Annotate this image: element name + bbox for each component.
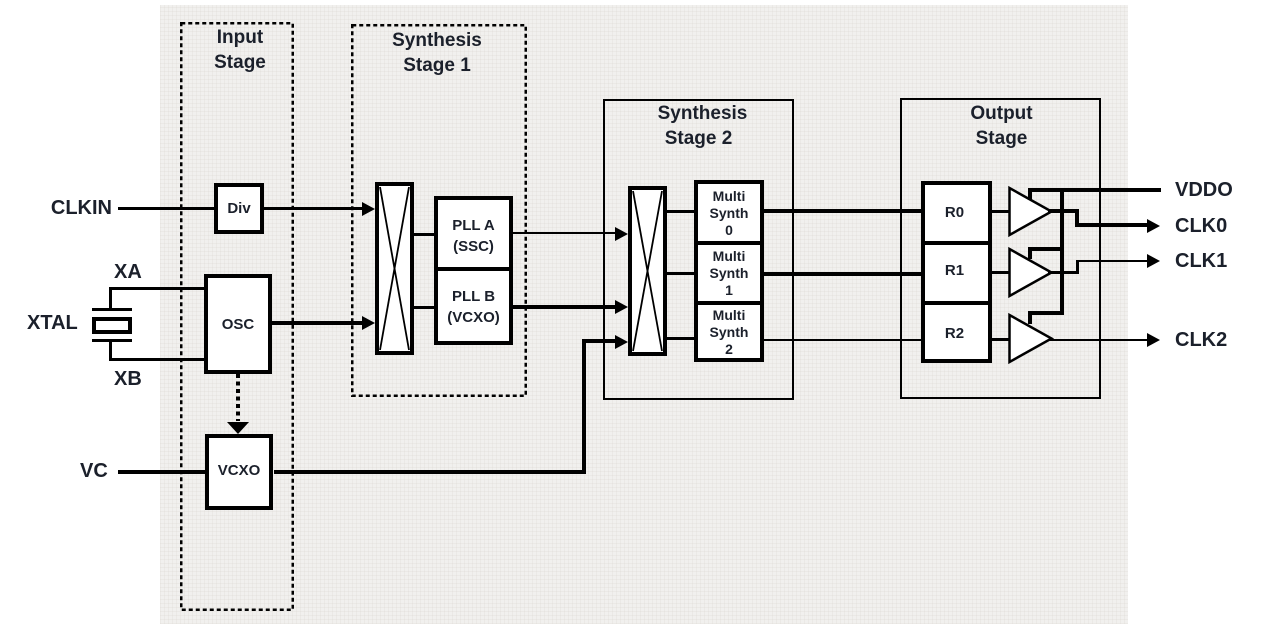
arrowhead into crossbar 2 (from PLL A) [615, 227, 628, 241]
crossbar switch 2 [628, 186, 667, 356]
pin label CLK2 [1175, 329, 1227, 351]
block PLL A / PLL B container [434, 196, 513, 345]
wire CLK2 horizontal [1048, 339, 1147, 341]
block R2 label [919, 325, 990, 342]
pin label CLKIN [40, 197, 112, 219]
arrowhead CLK0 [1147, 219, 1160, 233]
block MultiSynth 1 label [694, 248, 764, 299]
stage label: Input Stage [183, 25, 297, 75]
block MultiSynth column [694, 180, 764, 362]
wire XA vertical to crystal [109, 287, 112, 310]
pin label CLK0 [1175, 215, 1227, 237]
wire crossbar 1 to PLL A [414, 233, 434, 236]
diagram background panel [160, 5, 1128, 624]
wire VCXO to crossbar 2 [582, 339, 616, 343]
block OSC [204, 274, 272, 374]
wire crossbar 2 to MultiSynth 0 [667, 210, 694, 213]
power drop into buffer 0 [1028, 188, 1032, 200]
power bus vertical [1060, 188, 1064, 315]
arrowhead into crossbar 1 (from Div) [362, 202, 375, 216]
wire CLK0 jog down [1075, 209, 1079, 227]
divider between PLL A and PLL B [434, 267, 513, 271]
wire XB horizontal [109, 358, 206, 361]
block PLL B (VCXO) label [434, 286, 513, 328]
wire MultiSynth 2 to R2 [764, 339, 921, 341]
block R0 label [919, 204, 990, 221]
stage frame: Input Stage [179, 21, 295, 612]
wire OSC to crossbar 1 [272, 321, 362, 325]
wire XB vertical from crystal [109, 342, 112, 361]
divider MultiSynth 1/2 [694, 301, 764, 305]
stage label: Synthesis Stage 2 [607, 101, 798, 151]
wire PLL A to crossbar 2 [513, 232, 616, 234]
wire crossbar 2 to MultiSynth 1 [667, 272, 694, 275]
crossbar switch 1 [375, 182, 414, 355]
crystal X1 body [92, 317, 132, 334]
dotted wire OSC to VCXO [236, 374, 240, 421]
block MultiSynth 2 label [694, 307, 764, 358]
wire crossbar 2 to MultiSynth 2 [667, 337, 694, 340]
wire R0 to buffer 0 [992, 210, 1010, 213]
block MultiSynth 0 label [694, 188, 764, 239]
stage frame: Synthesis Stage 1 [350, 23, 528, 398]
pin label XA [114, 261, 142, 283]
stage label: Synthesis Stage 1 [349, 28, 525, 78]
output buffers 0,1,2 [1005, 180, 1060, 370]
arrowhead down into VCXO [227, 422, 249, 434]
wire MultiSynth 1 to R1 [764, 272, 921, 276]
stage frame: Synthesis Stage 2 [603, 99, 794, 400]
VDDO power rail [1028, 188, 1161, 192]
block R1 label [919, 262, 990, 279]
wire Div to crossbar 1 [264, 207, 362, 210]
block Div [214, 183, 264, 234]
wire VCXO output horizontal [274, 470, 586, 474]
wire MultiSynth 0 to R0 [764, 209, 921, 213]
power branch to buffer 2 [1028, 311, 1064, 315]
wire CLK0 stub from buffer 0 [1048, 209, 1079, 213]
wire crossbar 1 to PLL B [414, 306, 434, 309]
divider MultiSynth 0/1 [694, 241, 764, 245]
power drop into buffer 2 [1028, 311, 1032, 324]
block PLL A (SSC) label [434, 215, 513, 257]
arrowhead into crossbar 2 (from VCXO) [615, 335, 628, 349]
pin label VDDO [1175, 179, 1233, 201]
wire PLL B to crossbar 2 [513, 305, 616, 309]
power branch to buffer 1 [1028, 247, 1064, 251]
divider R0/R1 [921, 241, 992, 245]
wire CLK0 horizontal [1075, 223, 1147, 227]
crystal bottom plate [92, 339, 132, 342]
divider R1/R2 [921, 301, 992, 305]
pin label XTAL [27, 312, 78, 334]
power drop into buffer 1 [1028, 247, 1032, 259]
wire VCXO riser vertical [582, 339, 586, 474]
wire CLK1 stub from buffer 1 [1048, 271, 1079, 274]
wire CLKIN to Div [118, 207, 214, 210]
wire XA horizontal [109, 287, 206, 290]
arrowhead CLK1 [1147, 254, 1160, 268]
arrowhead into crossbar 2 (from PLL B) [615, 300, 628, 314]
wire CLK1 horizontal [1076, 260, 1147, 262]
wire R2 to buffer 2 [992, 338, 1010, 341]
output buffer 2 [1010, 315, 1052, 362]
arrowhead into crossbar 1 (from OSC) [362, 316, 375, 330]
output buffer 0 [1010, 188, 1052, 235]
wire R1 to buffer 1 [992, 271, 1010, 274]
stage frame: Output Stage [900, 98, 1101, 399]
wire CLK1 jog up [1076, 260, 1079, 274]
arrowhead CLK2 [1147, 333, 1160, 347]
block R column [921, 181, 992, 363]
pin label VC [80, 460, 108, 482]
pin label XB [114, 368, 142, 390]
wire VC to VCXO [118, 470, 206, 474]
output buffer 1 [1010, 249, 1052, 296]
crystal top plate [92, 308, 132, 311]
stage label: Output Stage [901, 101, 1102, 151]
block VCXO [205, 434, 273, 510]
pin label CLK1 [1175, 250, 1227, 272]
